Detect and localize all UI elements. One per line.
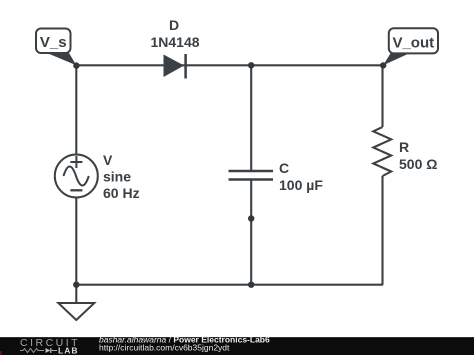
wire capacitor branch upper xyxy=(250,65,252,170)
node flag V_out xyxy=(383,28,438,65)
wire bottom horizontal (ground rail) xyxy=(76,284,383,286)
svg-text:1N4148: 1N4148 xyxy=(150,34,199,50)
CircuitLab logo resistor squiggle xyxy=(20,349,44,353)
junction capacitor top xyxy=(248,62,254,68)
wire right vertical upper (V_out node to resistor) xyxy=(381,65,383,127)
svg-text:V_s: V_s xyxy=(40,34,67,51)
svg-text:V_out: V_out xyxy=(392,34,434,51)
svg-text:D: D xyxy=(169,17,179,33)
svg-text:V: V xyxy=(103,152,113,168)
junction ground xyxy=(73,282,79,288)
svg-text:500 Ω: 500 Ω xyxy=(399,156,437,172)
junction capacitor bottom xyxy=(248,282,254,288)
wire left vertical lower (source - terminal to ground rail) xyxy=(75,198,77,285)
node flag V_s xyxy=(36,29,76,66)
capacitor C 100 uF xyxy=(229,171,274,180)
wire top horizontal (V_s node to V_out node) xyxy=(76,64,383,66)
svg-text:60 Hz: 60 Hz xyxy=(103,185,140,201)
svg-text:C: C xyxy=(279,160,289,176)
footer bar xyxy=(0,337,474,355)
junction node V_s xyxy=(73,62,79,68)
junction capacitor lower lead xyxy=(248,215,254,221)
voltage source V (sine 60 Hz) xyxy=(55,155,98,198)
svg-text:sine: sine xyxy=(103,169,131,185)
wire left vertical upper (node V_s to source + terminal) xyxy=(75,65,77,154)
svg-text:100 µF: 100 µF xyxy=(279,177,323,193)
svg-text:http://circuitlab.com/cv6b35jg: http://circuitlab.com/cv6b35jgn2ydt xyxy=(99,342,230,352)
wire capacitor branch lower xyxy=(250,180,252,285)
svg-text:R: R xyxy=(399,139,409,155)
ground xyxy=(58,285,94,320)
wire right vertical lower (resistor to ground rail) xyxy=(381,176,383,285)
svg-text:LAB: LAB xyxy=(58,345,78,355)
junction node V_out xyxy=(380,62,386,68)
resistor R 500 Ohm xyxy=(373,127,391,176)
CircuitLab logo diode glyph xyxy=(46,348,51,353)
diode D 1N4148 xyxy=(164,54,186,79)
